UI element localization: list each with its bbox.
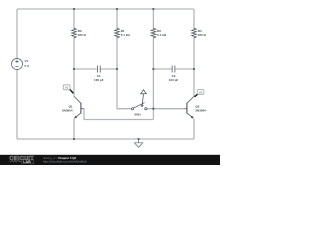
junction C2 left xyxy=(152,68,154,70)
wire Q1 emitter xyxy=(73,119,75,139)
wire C1 node xyxy=(74,68,117,70)
svg-text:SW1: SW1 xyxy=(134,112,141,116)
wire top rail xyxy=(17,8,194,10)
svg-text:220 Ω: 220 Ω xyxy=(78,33,87,37)
label C1 100pF xyxy=(94,74,104,82)
footer bar xyxy=(0,155,220,165)
wire R2 branch xyxy=(152,9,154,120)
label Q2 2N3904 xyxy=(195,105,206,113)
svg-text:http://circuitlab.com/c6vb5hw8: http://circuitlab.com/c6vb5hw8q2 xyxy=(43,159,87,163)
label R4 220 xyxy=(198,29,207,37)
label R3 220 xyxy=(78,29,87,37)
wire bottom rail xyxy=(17,138,194,140)
junction C1 left xyxy=(73,68,75,70)
label C2 100pF xyxy=(169,74,179,82)
voltage source V1 xyxy=(12,59,23,70)
footer logo CircuitLab xyxy=(9,156,34,164)
svg-text:100 pF: 100 pF xyxy=(169,78,179,82)
wire Q2 emitter xyxy=(193,119,195,139)
label R1 5.1k xyxy=(121,29,131,37)
junction top R3 xyxy=(73,8,75,10)
svg-text:V1: V1 xyxy=(25,59,29,63)
svg-text:100 pF: 100 pF xyxy=(94,78,104,82)
svg-text:V1: V1 xyxy=(65,86,69,90)
svg-text:5.1 kΩ: 5.1 kΩ xyxy=(157,33,167,37)
label Q1 2N3904 xyxy=(62,105,73,113)
label SW1 xyxy=(134,112,141,116)
svg-text:5 V: 5 V xyxy=(25,64,30,68)
annotation flag near Q2 xyxy=(195,89,204,96)
svg-text:2N3904: 2N3904 xyxy=(62,109,73,113)
capacitor C1 xyxy=(97,66,100,73)
svg-text:LAB: LAB xyxy=(23,160,31,164)
annotation flag near Q1 xyxy=(63,85,73,94)
wire switch right to Q2 base xyxy=(147,108,184,110)
wire left branch V1 xyxy=(16,9,18,139)
junction ground xyxy=(138,138,140,140)
resistor R1 xyxy=(115,28,120,39)
wire C2 node xyxy=(153,68,194,70)
label R2 5.1k xyxy=(157,29,167,37)
junction C2 right xyxy=(193,68,195,70)
junction Q1 emitter bottom xyxy=(73,138,75,140)
wire Q1 base to node xyxy=(84,109,153,120)
ground xyxy=(135,139,143,147)
footer attribution xyxy=(43,156,87,163)
resistor R2 xyxy=(151,28,156,39)
capacitor C2 xyxy=(172,66,175,73)
label V1 5 V xyxy=(25,59,30,68)
junction top R2 xyxy=(152,8,154,10)
transistor Q1 xyxy=(74,96,84,118)
svg-text:2N3904: 2N3904 xyxy=(195,109,206,113)
wire R3 branch xyxy=(73,9,75,97)
junction top R1 xyxy=(116,8,118,10)
transistor Q2 xyxy=(185,96,195,118)
junction C1 right xyxy=(116,68,118,70)
svg-text:5.1 kΩ: 5.1 kΩ xyxy=(121,33,131,37)
wire R4 branch xyxy=(193,9,195,97)
junction switch node xyxy=(152,108,154,110)
resistor R4 xyxy=(192,28,197,39)
svg-text:V2: V2 xyxy=(199,90,203,94)
switch SW1 xyxy=(132,90,147,110)
wire R1 branch xyxy=(117,9,131,109)
svg-text:220 Ω: 220 Ω xyxy=(198,33,207,37)
resistor R3 xyxy=(72,28,77,39)
